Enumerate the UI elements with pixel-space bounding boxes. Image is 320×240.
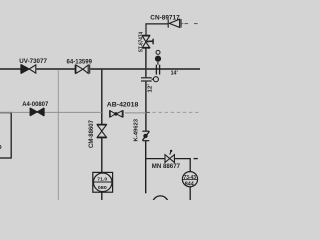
valve UV-73077 (21, 64, 36, 73)
svg-text:UV-73077: UV-73077 (19, 59, 47, 65)
valve 64-13599 (75, 65, 90, 74)
check valve K-49623 ball (143, 134, 147, 138)
wire main horizontal pipe y=69 (0, 68, 200, 70)
svg-text:K-49623: K-49623 (134, 119, 140, 142)
vent ring above orifice (156, 50, 160, 54)
wire vertical pipe B x=101.8 (101, 70, 103, 200)
svg-text:MN 88677: MN 88677 (152, 164, 181, 170)
svg-text:12′: 12′ (147, 83, 153, 92)
svg-text:844: 844 (185, 182, 194, 188)
valve A4-00807 (filled) (30, 108, 44, 116)
valve MN 88677 (165, 152, 174, 163)
instrument 710/080 square (93, 172, 113, 192)
wire gray pipe A4 y=112.4 (0, 111, 102, 113)
valve MN 88677 stem dot (170, 150, 172, 152)
wire below bubble (189, 187, 191, 200)
instrument bottom partial bubble (152, 196, 168, 212)
valve AB-42018 (110, 110, 124, 117)
instrument 73-43/844 bubble (182, 172, 197, 187)
wire dashed continuation (185, 23, 201, 25)
check valve CN-89717 (168, 19, 181, 28)
wire stub after check valve (182, 23, 184, 25)
svg-text:CM-88607: CM-88607 (89, 119, 95, 148)
wire vertical pipe C (145, 48, 147, 193)
check valve K-49623 (142, 131, 149, 141)
orifice with ball on main pipe (156, 62, 159, 75)
ball on orifice stem (155, 56, 161, 62)
wire gray segment AB to vertical (125, 112, 146, 114)
equipment box left (0, 113, 11, 158)
valve AB-42018 center ball (114, 112, 118, 116)
svg-text:AB-42018: AB-42018 (107, 103, 139, 109)
wire dashed line right (146, 111, 150, 113)
valve CM-88607 (97, 124, 107, 138)
wire top-right line with corner (146, 23, 168, 35)
svg-text:71.0: 71.0 (97, 177, 107, 182)
flange with ring (141, 77, 158, 82)
svg-text:9: 9 (0, 145, 2, 151)
svg-text:14′: 14′ (171, 70, 179, 76)
svg-text:A4-00807: A4-00807 (22, 102, 49, 108)
instrument 710/080 bubble (93, 173, 112, 192)
wire MN horizontal line (146, 158, 198, 172)
valve ST-67474 (142, 35, 153, 48)
svg-text:73-43: 73-43 (184, 175, 197, 181)
svg-text:080: 080 (98, 185, 108, 190)
wire gray vertical drop (57, 70, 59, 200)
